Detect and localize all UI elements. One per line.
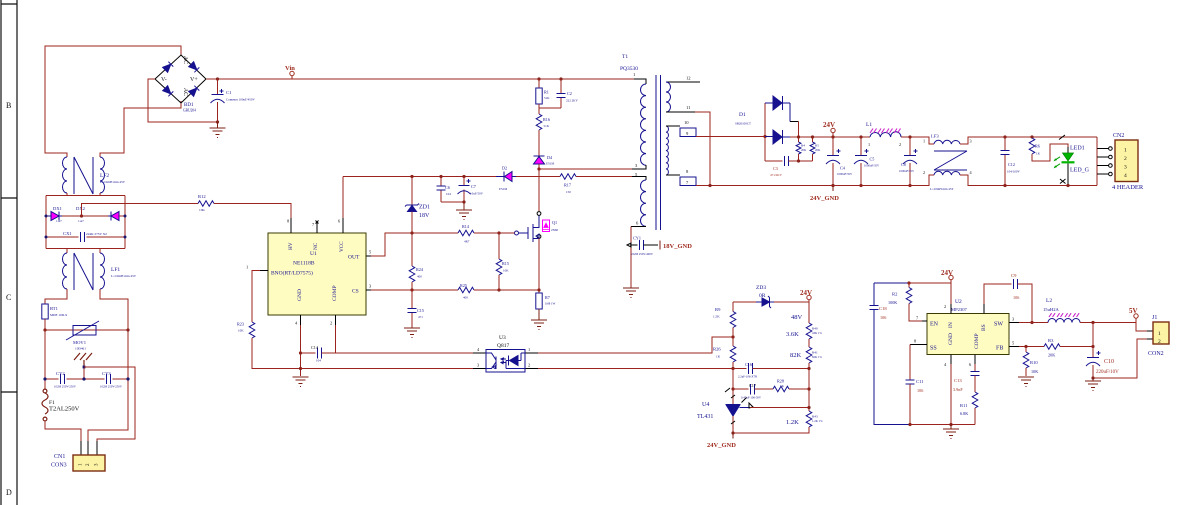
pin 3 stub U2 SW [1009, 322, 1019, 324]
svg-text:MOV1: MOV1 [73, 340, 87, 345]
wire OUT to gate line [371, 233, 458, 256]
junction R1 top [537, 77, 540, 80]
svg-text:471: 471 [418, 315, 423, 319]
svg-text:C1: C1 [226, 90, 232, 95]
junction GND-opto line [299, 367, 302, 370]
capacitor C5 [854, 137, 880, 186]
wire D4 anode to pin3 node [538, 164, 540, 169]
wire AC line (bridge bottom vertex to LF2 right coil) [100, 101, 181, 157]
svg-text:AC: AC [182, 56, 188, 64]
svg-text:B: B [6, 101, 11, 110]
connector CN1 CON3 [51, 441, 105, 471]
svg-text:BNO(RT/LD7575): BNO(RT/LD7575) [271, 270, 313, 277]
wire 24V down divider column [808, 302, 810, 323]
svg-text:IN: IN [948, 322, 954, 328]
resistor R25 [458, 283, 474, 300]
wire 24V rail C5 to L1 [861, 136, 870, 138]
junction DX1 left [45, 215, 48, 218]
svg-text:U2: U2 [955, 299, 962, 305]
svg-text:OUT: OUT [348, 255, 360, 261]
svg-text:R7: R7 [545, 295, 550, 300]
svg-text:C13: C13 [954, 378, 962, 383]
svg-text:MDE 10D-9: MDE 10D-9 [50, 313, 67, 317]
svg-text:106: 106 [917, 388, 923, 393]
svg-text:4R7: 4R7 [464, 240, 470, 244]
zener ZD3 [733, 285, 809, 308]
wire 24V_GND rail secondary [696, 175, 934, 186]
svg-text:1.2K 1%: 1.2K 1% [812, 419, 823, 423]
svg-text:2: 2 [1124, 156, 1127, 162]
svg-text:D: D [6, 488, 12, 497]
node 24V terminal buck [941, 269, 953, 283]
resistor R3 [1044, 338, 1093, 358]
svg-text:R3: R3 [1048, 338, 1054, 343]
svg-text:L1: L1 [866, 122, 872, 128]
wire R6 to LED anode [1032, 144, 1068, 161]
svg-text:20K: 20K [815, 148, 821, 152]
wire R25 to source node [474, 289, 539, 291]
svg-text:DX2: DX2 [76, 206, 86, 211]
bridge rectifier BD1 [155, 55, 206, 113]
svg-text:1: 1 [1124, 148, 1127, 154]
LED LED1 green [1054, 146, 1090, 186]
svg-text:C17: C17 [749, 383, 756, 388]
svg-text:C11: C11 [916, 379, 924, 384]
svg-text:400: 400 [417, 275, 422, 279]
svg-text:CY1: CY1 [633, 236, 641, 241]
connector CN2 4 HEADER [1097, 133, 1144, 191]
svg-text:1: 1 [868, 142, 870, 147]
svg-text:L=10mH min 45T: L=10mH min 45T [930, 187, 953, 191]
svg-text:12: 12 [686, 76, 691, 81]
svg-text:3.6K: 3.6K [786, 331, 799, 338]
junction DX middle [80, 214, 83, 217]
junction C8 top [908, 135, 911, 138]
svg-text:102M 250V-250V: 102M 250V-250V [54, 385, 77, 389]
capacitor C13 [953, 364, 980, 392]
svg-text:10K: 10K [1031, 369, 1038, 374]
resistor R43 [806, 411, 823, 427]
wire DX loop bottom rail [46, 249, 125, 254]
node 24V terminal [823, 121, 835, 137]
svg-text:C7: C7 [471, 184, 476, 189]
wire GND pin down [300, 325, 302, 376]
svg-text:1K: 1K [1036, 152, 1041, 156]
svg-text:1A7: 1A7 [56, 219, 62, 223]
diode DX1 [46, 206, 63, 223]
wire R41 bottom to column [808, 363, 810, 411]
wire R24 to CS line [411, 282, 413, 290]
wire Q1 source to R7 [538, 239, 540, 294]
junction CY3 right [126, 377, 129, 380]
svg-text:T2AL250V: T2AL250V [49, 406, 80, 413]
wire earth to CN1 pin3 [84, 367, 135, 441]
junction C7 bottom [462, 200, 465, 203]
svg-text:C: C [6, 293, 11, 302]
capacitor C7 [458, 177, 484, 203]
svg-text:LF3: LF3 [931, 134, 939, 139]
wire COMP node to opto pin4 [336, 352, 474, 354]
wire DX1-DX2 middle [62, 215, 108, 217]
svg-text:C6: C6 [445, 185, 450, 190]
junction R2 top [907, 281, 910, 284]
svg-text:GND: GND [297, 289, 303, 301]
svg-text:ES1M: ES1M [546, 162, 554, 166]
inductor L1 [866, 122, 901, 147]
svg-text:104: 104 [446, 192, 451, 196]
svg-text:NC: NC [313, 242, 319, 250]
capacitor C14 [301, 345, 336, 363]
svg-text:C2: C2 [567, 91, 572, 96]
op-amp U1 NE1118B controller [268, 233, 366, 315]
capacitor C6 [437, 177, 452, 203]
junction C1 bottom [216, 120, 219, 123]
wire VCC rail [343, 176, 632, 178]
resistor R24 [409, 233, 424, 282]
junction D1 anode column [763, 135, 766, 138]
svg-text:FB: FB [996, 346, 1003, 352]
capacitor C1 [211, 79, 256, 122]
svg-text:1: 1 [1158, 331, 1161, 337]
svg-text:R9: R9 [715, 307, 721, 312]
ground below C1 [210, 122, 226, 138]
svg-text:L=10mH min 45T: L=10mH min 45T [100, 180, 126, 184]
resistor R4 [796, 137, 807, 161]
svg-text:C12: C12 [1008, 162, 1015, 167]
ground below C10 [1085, 378, 1101, 391]
ground below R10 [1018, 377, 1034, 387]
capacitor C10 [1086, 323, 1119, 379]
wire R16 to D4 [538, 130, 540, 156]
resistor R1 [536, 79, 550, 104]
svg-text:400: 400 [463, 296, 468, 300]
svg-text:104: 104 [316, 359, 321, 363]
resistor R10 [1023, 347, 1038, 377]
svg-text:R43: R43 [812, 415, 818, 419]
svg-text:R14: R14 [462, 224, 470, 229]
svg-text:11: 11 [686, 105, 691, 110]
junction R5 top [811, 135, 814, 138]
svg-text:CN1: CN1 [54, 454, 65, 460]
svg-text:220uF/10V: 220uF/10V [1096, 370, 1119, 375]
pin 4 stub U1 GND [300, 315, 302, 325]
svg-text:CN2: CN2 [1113, 133, 1124, 139]
junction C8 bottom [908, 184, 911, 187]
svg-text:R6: R6 [1035, 144, 1040, 149]
resistor R12 [198, 194, 214, 212]
junction C4 bottom [831, 184, 834, 187]
svg-text:1.2K: 1.2K [786, 419, 799, 426]
svg-text:C10: C10 [1104, 359, 1114, 365]
svg-text:1A7: 1A7 [78, 219, 84, 223]
svg-text:GND: GND [948, 333, 954, 345]
resistor R23 [237, 322, 255, 339]
power port 24V_GND feedback [707, 433, 736, 449]
capacitor C15 [408, 290, 424, 328]
svg-text:3: 3 [970, 139, 972, 144]
wire R12 to U1 HV pin [214, 204, 291, 219]
svg-text:1: 1 [923, 139, 925, 144]
junction CS sense node [537, 288, 540, 291]
node Vin terminal [285, 65, 295, 79]
pin 6 stub U1 VCC [342, 218, 344, 233]
node 5V terminal [1129, 307, 1138, 323]
svg-text:1K: 1K [780, 384, 785, 388]
wire R14 to Q1 gate [474, 232, 515, 234]
wire AC line top loop (bridge top vertex to LF2 left coil) [45, 46, 181, 157]
wire pin3 line [539, 168, 632, 170]
regulator U2 MP2307 [927, 299, 1009, 355]
wire T1 pin9 to D1 [696, 136, 765, 138]
svg-text:VCC: VCC [339, 241, 345, 252]
svg-text:0.47uF-106-50V: 0.47uF-106-50V [741, 396, 762, 400]
wire LF1 right down right vertical [88, 289, 128, 441]
svg-text:224K 275V X2: 224K 275V X2 [86, 232, 107, 236]
svg-text:104/100V: 104/100V [1007, 170, 1020, 174]
junction CS-R24 [410, 288, 413, 291]
resistor R9 [713, 302, 736, 328]
svg-text:2: 2 [923, 170, 925, 175]
pin 6 stub U2 COMP [974, 355, 976, 365]
wire RT1 to MOV line [44, 319, 46, 330]
diode D2 [496, 166, 516, 192]
svg-text:Q817: Q817 [497, 343, 509, 349]
svg-text:CX1: CX1 [63, 231, 72, 236]
svg-text:R26: R26 [713, 347, 721, 352]
svg-text:2: 2 [1158, 339, 1161, 345]
svg-text:102M 250V-250V: 102M 250V-250V [100, 385, 123, 389]
svg-text:1000uF/35V: 1000uF/35V [864, 164, 880, 168]
svg-text:T1: T1 [622, 54, 628, 60]
junction R15 bottom [497, 288, 500, 291]
junction VCC-C7 [462, 175, 465, 178]
junction CY middle [82, 377, 85, 380]
svg-text:6.8K: 6.8K [960, 411, 968, 416]
diode D4 [534, 155, 555, 166]
svg-text:R15: R15 [502, 261, 509, 266]
svg-text:4: 4 [1124, 173, 1127, 179]
wire 24V rail from D1 [790, 136, 861, 138]
svg-text:R17: R17 [564, 183, 571, 188]
svg-text:LF2: LF2 [100, 173, 109, 179]
svg-text:18V_GND: 18V_GND [663, 243, 692, 250]
svg-text:2.2uF-106-X7R: 2.2uF-106-X7R [738, 375, 757, 379]
wire LF1 left to RT1 [45, 289, 67, 304]
wire C16 node down to C17 row [732, 369, 734, 390]
junction R26 bottom C16 [731, 367, 734, 370]
ground below C15 [404, 328, 420, 338]
svg-text:R1: R1 [544, 90, 549, 95]
svg-text:CY3: CY3 [102, 371, 111, 376]
resistor R14 [458, 224, 474, 244]
svg-text:CON2: CON2 [1148, 351, 1164, 357]
svg-text:20K: 20K [801, 148, 807, 152]
junction LED cathode rail [1066, 184, 1069, 187]
junction ZD1 gate line [410, 231, 413, 234]
svg-text:MP2307: MP2307 [951, 307, 968, 312]
svg-text:2N60: 2N60 [551, 228, 558, 232]
wire opto pin2 to R26 bottom [538, 368, 733, 370]
wire VCC pin riser [342, 177, 344, 219]
svg-text:10uF/50V: 10uF/50V [470, 192, 484, 196]
svg-text:CY2: CY2 [56, 371, 65, 376]
wire L2 to 5V node [1080, 322, 1136, 324]
svg-text:LED1: LED1 [1070, 146, 1085, 152]
svg-text:EN: EN [930, 322, 939, 328]
svg-text:24V: 24V [823, 121, 835, 129]
svg-text:R25: R25 [460, 283, 467, 288]
junction C5 top [859, 135, 862, 138]
wire R2 to EN pin [909, 304, 922, 322]
junction FB-R10 [1024, 345, 1027, 348]
junction R15 top [497, 231, 500, 234]
capacitor C18 [870, 306, 888, 321]
svg-text:U1: U1 [310, 251, 317, 257]
svg-text:R11: R11 [960, 403, 968, 408]
svg-text:C5: C5 [870, 157, 875, 162]
wire J1 pin2 return [1093, 339, 1147, 378]
svg-text:0R: 0R [759, 293, 766, 299]
junction C1 top [216, 77, 219, 80]
resistor R26 [713, 328, 736, 369]
wire C6-C7 bottoms [441, 201, 464, 203]
svg-text:43K 1%: 43K 1% [812, 331, 822, 335]
svg-text:R23: R23 [237, 322, 244, 327]
capacitor C4 [826, 137, 853, 186]
junction U4 anode [731, 431, 734, 434]
svg-text:DX1: DX1 [53, 206, 63, 211]
svg-text:100K: 100K [888, 300, 897, 305]
junction VCC-ZD1 [410, 175, 413, 178]
resistor R6 [1029, 137, 1040, 156]
svg-text:1K: 1K [716, 355, 721, 359]
svg-text:106: 106 [1013, 295, 1019, 300]
svg-text:D4: D4 [547, 155, 553, 160]
wire L1 to C8/LF3 [901, 137, 934, 144]
junction D1 cathode [797, 135, 800, 138]
wire V- to C1 bottom [148, 79, 218, 122]
resistor R40 [806, 323, 822, 339]
svg-text:NE1118B: NE1118B [293, 261, 315, 267]
svg-text:V+: V+ [190, 77, 198, 83]
wire opto pin1 to feedback divider [538, 337, 733, 353]
resistor R11 [960, 392, 978, 425]
junction 24V node [831, 135, 834, 138]
svg-text:1: 1 [528, 347, 530, 352]
svg-text:U3: U3 [499, 335, 506, 341]
svg-text:51K: 51K [544, 124, 550, 128]
svg-text:18V: 18V [419, 213, 430, 219]
capacitor CX1 [46, 231, 125, 242]
svg-text:ES1M: ES1M [499, 187, 507, 191]
wire DX loop top rail [46, 193, 125, 249]
optocoupler U3 Q817 [473, 335, 538, 372]
junction R4 bottom [797, 159, 800, 162]
svg-text:2: 2 [528, 363, 530, 368]
svg-text:ZD1: ZD1 [419, 205, 430, 211]
junction C10 bottom [1091, 376, 1094, 379]
junction C16 right [807, 367, 810, 370]
svg-text:R4: R4 [801, 144, 805, 148]
junction C5 bottom [859, 184, 862, 187]
junction drain node [537, 167, 540, 170]
svg-text:BD1: BD1 [184, 103, 194, 108]
svg-text:COMP: COMP [974, 333, 980, 349]
ground below R7 [531, 309, 547, 330]
wire R1/C2 bottoms joined [539, 104, 561, 114]
svg-text:222M 250V-400V: 222M 250V-400V [631, 252, 654, 256]
capacitor CY2 [45, 371, 84, 389]
capacitor C17 [733, 383, 773, 400]
junction DX2 right [124, 215, 127, 218]
thermistor RT1 [42, 304, 68, 319]
svg-text:C8: C8 [901, 162, 906, 167]
fuse F1 [42, 389, 48, 421]
wire opto pin3 line [301, 368, 474, 370]
capacitor C9 bootstrap [984, 273, 1032, 323]
svg-text:PQ3530: PQ3530 [620, 66, 638, 72]
svg-text:0.68 1W: 0.68 1W [545, 302, 556, 306]
pin 7 stub U2 EN [922, 320, 927, 322]
junction earth branch [83, 366, 86, 369]
svg-text:C3: C3 [773, 166, 778, 171]
svg-text:150: 150 [566, 190, 571, 194]
svg-text:SW: SW [994, 322, 1003, 328]
svg-text:1000uF/35V: 1000uF/35V [899, 169, 915, 173]
resistor R15 [496, 233, 509, 290]
wire R43 bottom rail to U4 anode [733, 427, 809, 433]
junction C12 top [1003, 135, 1006, 138]
junction R9-R26 [731, 335, 734, 338]
svg-text:R5: R5 [815, 144, 819, 148]
resistor R7 [536, 293, 556, 309]
svg-text:U4: U4 [702, 402, 709, 408]
inductor L2 [1043, 298, 1080, 323]
svg-text:82K: 82K [790, 352, 802, 359]
junction ref node [807, 406, 810, 409]
svg-text:C16: C16 [745, 362, 752, 367]
junction C12 bottom [1003, 184, 1006, 187]
frame border left [1, 0, 17, 505]
svg-text:LED_G: LED_G [1070, 168, 1090, 174]
wire buck bottom rail [910, 424, 975, 426]
svg-text:2: 2 [330, 321, 332, 326]
svg-text:SB20100CT: SB20100CT [735, 122, 751, 126]
node 24V terminal feedback [800, 289, 812, 302]
junction SW-C9 [1030, 321, 1033, 324]
svg-text:TL431: TL431 [697, 414, 713, 420]
svg-text:R12: R12 [198, 194, 206, 199]
wire right loop to CN2 [1096, 137, 1098, 186]
pin 5 stub U2 FB [1009, 346, 1019, 348]
wire R40-R41 [808, 339, 810, 347]
svg-text:10K: 10K [199, 208, 205, 212]
wire pin6 to primary ground [630, 227, 632, 289]
svg-text:C15: C15 [417, 308, 424, 313]
junction MOV right [126, 328, 129, 331]
svg-text:24V: 24V [941, 269, 953, 277]
junction VCC-C6 [439, 175, 442, 178]
svg-text:4 HEADER: 4 HEADER [1112, 184, 1144, 191]
svg-text:L=10mH min 45T: L=10mH min 45T [111, 274, 137, 278]
svg-text:R40: R40 [812, 327, 818, 331]
capacitor C11 [906, 379, 925, 425]
wire 24V to IN pin [909, 283, 951, 304]
svg-text:24V: 24V [800, 289, 812, 297]
svg-text:Q1: Q1 [552, 220, 557, 225]
wire 5V to J1 pin1 [1136, 323, 1147, 332]
wire pin1 to R23 [252, 271, 260, 323]
